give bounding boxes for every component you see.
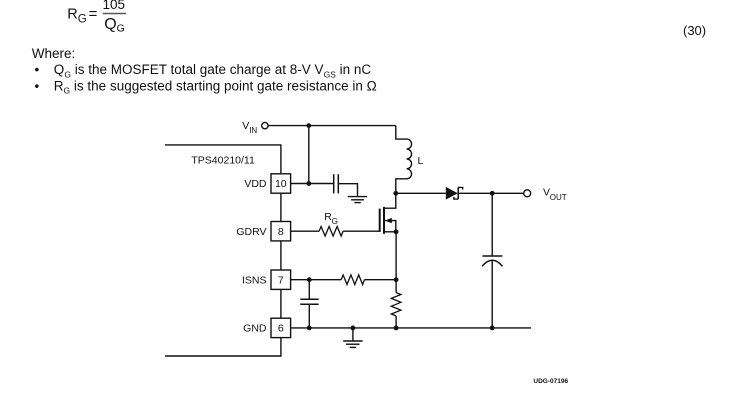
transistor Q1 (NMOS) xyxy=(380,193,397,234)
pin box GDRV 8 xyxy=(271,222,291,241)
svg-text:=: = xyxy=(89,5,98,22)
svg-text:Where:: Where: xyxy=(32,46,76,61)
resistor RG xyxy=(319,226,343,236)
svg-text:R: R xyxy=(67,6,77,22)
svg-text:7: 7 xyxy=(278,274,284,286)
wire: C1 to ground xyxy=(339,184,358,197)
wire: VIN drop to VDD xyxy=(308,126,310,184)
wire: source down to ISNS node xyxy=(395,232,397,280)
label VOUT xyxy=(543,186,567,202)
wire: VIN top rail xyxy=(268,125,396,127)
wire: VDD pin to bypass cap xyxy=(291,183,334,185)
wire: GDRV pin to RG xyxy=(291,230,320,232)
wire: ISNS pin to filter node xyxy=(291,279,342,281)
svg-text:8: 8 xyxy=(278,226,284,238)
terminal VIN xyxy=(262,122,268,128)
junction: rail at ground xyxy=(351,326,356,331)
svg-text:G: G xyxy=(332,217,338,226)
svg-text:•: • xyxy=(35,79,40,94)
junction: sense node xyxy=(394,277,399,282)
svg-text:V: V xyxy=(242,120,249,132)
svg-text:RG is the suggested starting p: RG is the suggested starting point gate … xyxy=(54,79,377,96)
wire: R1 to sense node xyxy=(365,279,397,281)
diode D1 (schottky) xyxy=(446,187,463,200)
svg-text:Q: Q xyxy=(104,16,116,33)
wire: VOUT node to output cap xyxy=(491,193,493,256)
label VIN xyxy=(242,120,257,135)
svg-text:10: 10 xyxy=(275,178,287,190)
inductor L xyxy=(396,126,412,194)
svg-text:(30): (30) xyxy=(683,23,706,38)
wire: switch node to diode xyxy=(396,192,446,194)
svg-text:VDD: VDD xyxy=(244,178,267,190)
junction: rail at R2 xyxy=(394,326,399,331)
svg-text:GND: GND xyxy=(243,323,267,335)
junction: rail at C3 xyxy=(490,326,495,331)
wire: diode to VOUT xyxy=(458,192,523,194)
wire: ground rail xyxy=(291,327,531,329)
resistor R1 (ISNS filter) xyxy=(341,275,364,285)
svg-text:6: 6 xyxy=(278,323,284,335)
resistor R2 (current sense) xyxy=(391,280,401,328)
svg-text:UDG-07196: UDG-07196 xyxy=(533,378,568,385)
svg-text:TPS40210/11: TPS40210/11 xyxy=(191,155,255,167)
svg-text:G: G xyxy=(78,13,87,25)
junction: VIN rail / inductor xyxy=(306,123,311,128)
svg-text:105: 105 xyxy=(103,0,126,12)
junction: VDD node xyxy=(306,181,311,186)
svg-text:OUT: OUT xyxy=(550,193,567,202)
capacitor C3 (output, polarized) xyxy=(482,256,502,266)
junction: VOUT node xyxy=(490,191,495,196)
junction: rail at C2 xyxy=(307,326,312,331)
svg-text:IN: IN xyxy=(249,126,257,135)
svg-text:•: • xyxy=(35,62,40,77)
svg-text:ISNS: ISNS xyxy=(242,274,267,286)
svg-text:GDRV: GDRV xyxy=(236,226,266,238)
capacitor C2 (ISNS filter) xyxy=(300,280,318,328)
pin box ISNS 7 xyxy=(271,270,291,289)
svg-text:G: G xyxy=(117,23,125,35)
capacitor C1 (VDD bypass) xyxy=(334,174,339,193)
ground (C1) xyxy=(348,197,367,203)
svg-text:L: L xyxy=(418,155,424,167)
wire: cap to ground rail xyxy=(491,260,493,328)
pin box GND 6 xyxy=(271,318,291,337)
wire: RG to gate xyxy=(343,230,380,232)
junction: ISNS node xyxy=(307,277,312,282)
IC U1 block outline TPS40210/11 xyxy=(165,145,281,356)
junction: switch node xyxy=(393,191,398,196)
label RG xyxy=(324,211,338,226)
pin box VDD 10 xyxy=(271,174,291,193)
equation 30: RG = 105/QG xyxy=(67,0,126,34)
ground (rail) xyxy=(343,328,362,348)
junction: MOSFET source xyxy=(394,229,399,234)
terminal VOUT xyxy=(524,190,531,197)
